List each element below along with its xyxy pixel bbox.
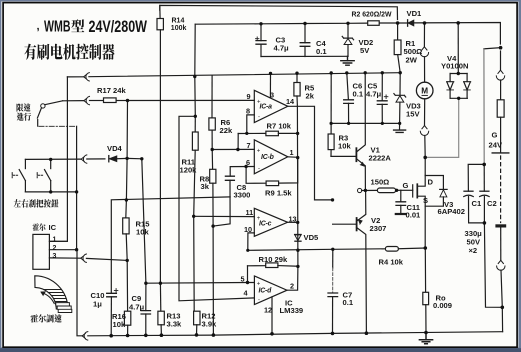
junction node (261,23.8)	[259, 22, 262, 25]
resistor R10 feedback	[248, 265, 266, 267]
junction node (145.8,335.3)	[144, 334, 148, 338]
junction node (297.7,157.6)	[296, 156, 299, 159]
svg-text:R2 620Ω/2W: R2 620Ω/2W	[352, 10, 393, 19]
wire pin10 input	[248, 233, 255, 250]
junction node (76.6,191.9)	[75, 190, 78, 193]
junction node (425.2,157.4)	[423, 156, 427, 160]
svg-text:4.7μ: 4.7μ	[274, 44, 290, 53]
svg-text:10k: 10k	[136, 228, 149, 237]
junction node (237.9,149.5)	[236, 148, 239, 151]
svg-text:2W: 2W	[406, 56, 418, 65]
capacitor C8	[213, 176, 234, 226]
motor M circle	[416, 82, 433, 99]
svg-text:7: 7	[247, 141, 251, 150]
svg-text:IC-c: IC-c	[259, 221, 272, 228]
svg-text:R9 1.5k: R9 1.5k	[265, 189, 292, 198]
wire left tall vertical x=67.4 to hall pin1	[49, 77, 67, 242]
svg-text:R7 10k: R7 10k	[267, 122, 292, 131]
wire pin6 input	[230, 167, 254, 177]
junction node (127.6,335.5)	[126, 334, 130, 338]
wire pin5 input	[146, 282, 255, 285]
junction node (193.7,216.3)	[192, 215, 195, 218]
junction node (127.1,158.4)	[125, 157, 128, 160]
MOSFET V3 symbol	[401, 176, 425, 249]
capacitor C9	[141, 311, 150, 336]
svg-text:2k: 2k	[306, 92, 315, 101]
junction node (348,23.3)	[346, 22, 349, 25]
svg-text:3: 3	[270, 91, 274, 100]
svg-text:6: 6	[246, 158, 250, 167]
svg-text:VD4: VD4	[107, 144, 123, 153]
svg-text:4.7μ: 4.7μ	[129, 303, 145, 312]
junction node (213.4,335.1)	[212, 333, 216, 337]
junction node (194.8,76.5)	[193, 75, 196, 78]
svg-text:8: 8	[246, 107, 250, 116]
junction node (458.7,98.3)	[457, 97, 460, 100]
junction node (458.3,73.5)	[457, 72, 460, 75]
junction node (111.2,335.7)	[109, 334, 113, 338]
svg-text:120k: 120k	[180, 166, 198, 175]
junction node (348.6,123.4)	[347, 122, 350, 125]
label hall speed-adjust	[31, 314, 62, 322]
wire brake net top y=159.4	[25, 158, 81, 160]
svg-text:3.3k: 3.3k	[167, 320, 183, 329]
svg-text:3300: 3300	[234, 191, 251, 200]
wire pin8 stub and column	[247, 115, 255, 133]
junction node (212.2,149.5)	[211, 148, 214, 151]
junction node (213.1,226.1)	[211, 224, 214, 227]
svg-text:14: 14	[286, 97, 295, 106]
svg-text:0.1: 0.1	[353, 90, 364, 99]
wire throttle line with connector hook	[63, 100, 84, 102]
svg-text:11: 11	[246, 208, 254, 217]
label brake buttons	[14, 199, 59, 208]
junction node (160.4,283.2)	[159, 282, 162, 285]
motor column with hooks	[423, 23, 425, 47]
junction node (50.7,191.9)	[49, 190, 52, 193]
wire IC-b output	[288, 156, 298, 159]
op-amp IC-b triangle	[254, 140, 287, 174]
wire IC-a pin3 to supply	[269, 73, 271, 97]
junction node (332.5,199.9)	[331, 198, 334, 201]
junction node (365.2,72.8)	[364, 71, 367, 74]
svg-text:2: 2	[290, 282, 294, 291]
wire output chain vertical x=297.6	[296, 106, 299, 266]
wire top bypass from R14 to R2/VD1 node	[160, 5, 398, 19]
junction node (297,73.2)	[295, 72, 298, 75]
op-amp IC-a triangle	[254, 90, 287, 122]
junction node (196.5,334.9)	[195, 333, 199, 337]
wire C1/C2 branch from battery plus	[484, 48, 501, 49]
svg-text:10k: 10k	[113, 320, 126, 329]
connector hook on supply rail	[84, 73, 90, 81]
svg-text:6AP402: 6AP402	[438, 207, 465, 216]
junction node (297.9,266.4)	[296, 265, 299, 268]
resistor R17 horizontal	[104, 98, 117, 103]
connector hook on battery minus	[497, 260, 505, 270]
zener diode VD2	[342, 23, 353, 56]
junction node (458.2,22.9)	[456, 21, 460, 25]
junction node (297.9,250.2)	[296, 249, 299, 252]
svg-text:2307: 2307	[370, 224, 387, 233]
svg-text:LM339: LM339	[280, 306, 304, 315]
pin numbers LM339	[241, 91, 297, 315]
capacitor C3	[256, 24, 267, 57]
resistor R6 column	[211, 76, 213, 118]
diode VD4	[109, 156, 127, 162]
junction node (396.6,190.3)	[395, 189, 398, 192]
junction node (365.4,190.4)	[364, 189, 367, 192]
zener diode VD3	[394, 73, 406, 130]
junction node (247.8,250.3)	[246, 249, 249, 252]
label hall IC	[33, 223, 46, 231]
wire branch x=179 to pin4	[179, 116, 254, 300]
capacitor C10	[107, 289, 118, 336]
junction node (246.8,133.4)	[245, 132, 248, 135]
battery G 24V symbol	[492, 152, 509, 154]
junction node (141.8,158.8)	[140, 157, 143, 160]
junction node (50.7,159.4)	[49, 158, 52, 161]
resistor R2 horizontal	[368, 21, 380, 26]
junction node (366.4,333.2)	[365, 331, 369, 335]
wire R7 left leg to pin7 net	[237, 134, 239, 150]
wire IC-c output	[288, 221, 298, 223]
capacitor C7	[328, 249, 338, 333]
op-amp IC-d triangle	[254, 276, 287, 305]
hall IC box	[33, 234, 50, 269]
svg-text:S: S	[423, 196, 428, 205]
junction node (484.4,222.9)	[483, 221, 487, 225]
wire pin7 input	[212, 148, 254, 150]
op-amp IC-c triangle	[254, 208, 287, 236]
junction node (425.3,248)	[424, 246, 428, 250]
wire comparator output bus y=250	[248, 249, 386, 251]
wire hall pin2 stub	[49, 249, 76, 251]
wire pin12 to ground rail	[271, 297, 273, 334]
svg-text:100k: 100k	[171, 25, 187, 32]
junction node (397.6,23)	[396, 21, 400, 25]
V4 to drain node (faint)	[425, 98, 459, 157]
svg-text:0.01: 0.01	[406, 211, 422, 220]
wire x=195 column top	[194, 24, 197, 116]
resistor R11 column	[194, 116, 196, 132]
junction node (126.4,200)	[125, 198, 128, 201]
capacitor C2	[483, 164, 485, 191]
svg-text:WMB: WMB	[44, 19, 71, 36]
svg-text:2222A: 2222A	[369, 154, 392, 163]
junction node (332.5,333.4)	[331, 332, 335, 336]
junction node (382.3,123.4)	[381, 122, 384, 125]
junction node (270.5,73.4)	[269, 72, 272, 75]
junction node (76.6,249.7)	[75, 248, 78, 251]
wire IC-d output to R10 node	[287, 266, 298, 290]
wire IC-a output	[288, 106, 333, 200]
wire C1 top	[468, 164, 484, 191]
junction node (382.3,72.8)	[381, 71, 384, 74]
junction node (272,333.8)	[270, 332, 274, 336]
svg-text:3.9k: 3.9k	[202, 320, 218, 329]
svg-text:G: G	[492, 131, 498, 140]
wire hall pin3 stub with hook	[49, 257, 80, 259]
svg-text:R17 24k: R17 24k	[97, 86, 126, 95]
svg-text:24V/280W: 24V/280W	[89, 17, 148, 36]
svg-text:0.1: 0.1	[316, 47, 327, 56]
svg-text:R14: R14	[172, 18, 185, 25]
svg-text:VD5: VD5	[304, 233, 320, 242]
svg-text:×2: ×2	[469, 246, 478, 255]
svg-text:,: ,	[37, 21, 40, 33]
resistor R3 column	[330, 73, 332, 134]
comparator names	[259, 104, 275, 295]
wire main top rail y=23	[195, 23, 500, 45]
throttle dial arc	[35, 276, 72, 313]
wire C9 column	[142, 159, 146, 311]
junction node (331.1,123.4)	[330, 122, 333, 125]
resistor Ro column	[424, 248, 426, 292]
svg-text:4.7μ: 4.7μ	[366, 90, 382, 99]
svg-text:Y0100N: Y0100N	[441, 62, 468, 71]
title text	[37, 17, 148, 36]
diode VD5 in output chain	[295, 235, 302, 242]
junction node (426,332.5)	[424, 331, 428, 335]
title line2	[24, 44, 114, 60]
resistor R8 column	[211, 150, 213, 170]
junction node (305,23.5)	[303, 22, 306, 25]
capacitor C1	[464, 191, 473, 196]
junction node (127.5,100.5)	[126, 99, 129, 102]
thyristor module V4 box	[447, 23, 471, 98]
svg-text:10k: 10k	[338, 142, 351, 151]
resistor R13 column	[159, 283, 161, 311]
wire drain node down to MOSFET	[424, 157, 426, 175]
wire hall pin2 column x=76.6	[76, 126, 78, 249]
wire cap bottom rail y=123.4	[331, 122, 399, 124]
resistor R14 vertical	[159, 5, 161, 18]
hall pin numbers	[53, 237, 57, 260]
svg-text:3k: 3k	[201, 182, 210, 191]
transistor V2 2307	[333, 190, 367, 333]
svg-text:IC-b: IC-b	[261, 154, 275, 161]
svg-text:C2: C2	[487, 199, 497, 208]
junction node (331.2,73)	[330, 71, 333, 74]
svg-text:3: 3	[53, 253, 57, 260]
svg-text:1: 1	[53, 237, 57, 244]
svg-text:VD1: VD1	[407, 9, 423, 18]
resistor R5 column	[296, 73, 298, 82]
body diode V3	[425, 176, 447, 207]
junction node (399.7,123.4)	[398, 122, 401, 125]
svg-text:0.1: 0.1	[343, 298, 354, 307]
resistor R1 column	[397, 23, 399, 40]
switch speed-limit lever	[41, 104, 45, 108]
junction node (484.2,164.4)	[482, 163, 486, 167]
junction node (500.6,47.7)	[499, 46, 503, 50]
label speed-limit run	[17, 103, 32, 120]
svg-text:24V: 24V	[489, 141, 503, 150]
ground rail bottom	[77, 250, 82, 336]
svg-text:13: 13	[289, 215, 297, 224]
svg-text:1μ: 1μ	[93, 300, 102, 309]
wire C3/C4/VD2 bottom	[261, 55, 348, 57]
capacitor C11	[396, 190, 406, 214]
junction node (424.5,23)	[423, 21, 427, 25]
ground symbol on rail	[419, 333, 432, 344]
svg-text:10: 10	[244, 225, 252, 234]
capacitor C5	[377, 73, 388, 124]
wire pin9 input (throttle line from R17)	[128, 99, 255, 101]
wire VD4 node to C9 column	[127, 157, 142, 159]
mechanical link dash-dot	[39, 125, 77, 127]
svg-text:1: 1	[290, 148, 294, 157]
svg-text:IC: IC	[49, 223, 57, 232]
junction node (145.9,283.2)	[144, 282, 147, 285]
brake switch B	[50, 159, 52, 168]
column R15/R16 x=127	[126, 101, 128, 218]
resistor R9 feedback loop	[246, 167, 266, 184]
junction node (195.3,116.3)	[194, 115, 197, 118]
junction node (127.2,260.4)	[126, 259, 129, 262]
fuse box on battery line	[497, 100, 504, 117]
brake switch A	[24, 159, 26, 168]
svg-text:D: D	[428, 178, 434, 187]
capacitor C6	[344, 73, 354, 124]
wire battery plus column	[500, 51, 502, 70]
svg-text:R10 29k: R10 29k	[259, 255, 288, 264]
svg-text:22k: 22k	[220, 126, 233, 135]
wire pin11 input	[194, 215, 255, 217]
junction node (297.6,133.4)	[296, 132, 299, 135]
svg-text:2: 2	[53, 245, 57, 252]
wire timing net C8 to C10	[111, 197, 230, 293]
wire supply rail y=76.7-72.7	[67, 76, 83, 78]
junction node (502.3,307.3)	[501, 306, 505, 310]
svg-text:0.009: 0.009	[433, 301, 452, 310]
svg-text:12: 12	[264, 306, 272, 315]
capacitor C4	[300, 24, 310, 57]
svg-text:9: 9	[247, 92, 251, 101]
comparator input polarity marks	[257, 100, 261, 304]
svg-text:IC-d: IC-d	[259, 288, 273, 295]
svg-text:150Ω: 150Ω	[371, 178, 390, 187]
wire brake net bottom y=191.9	[25, 191, 76, 193]
resistor 150ohm with connector circle	[358, 188, 362, 192]
svg-text:M: M	[421, 87, 428, 96]
svg-text:15V: 15V	[406, 110, 420, 119]
wire hall pin1 stub	[49, 240, 67, 242]
ground symbol below VD3	[394, 130, 406, 132]
svg-text:G: G	[403, 181, 409, 190]
resistor R7 horizontal	[238, 132, 266, 134]
junction node (161.4,335.2)	[160, 333, 164, 337]
transistor V1 2222A	[331, 73, 365, 191]
junction node (332.8,249.3)	[331, 248, 334, 251]
junction node (247.5,282.5)	[246, 281, 249, 284]
junction node (297.7,222.4)	[296, 221, 299, 224]
svg-text:5V: 5V	[360, 46, 370, 55]
resistor R12 column	[194, 311, 200, 325]
junction node (346.8,72.9)	[345, 71, 348, 74]
diode VD1	[408, 20, 414, 26]
ground symbol below VD2	[341, 56, 354, 65]
junction node (400.2,72.7)	[399, 71, 402, 74]
svg-text:5: 5	[241, 275, 245, 284]
svg-text:R4 10k: R4 10k	[379, 258, 404, 267]
svg-text:C1: C1	[472, 199, 482, 208]
svg-text:IC-a: IC-a	[260, 104, 273, 111]
junction node (246.1,166.5)	[244, 165, 247, 168]
